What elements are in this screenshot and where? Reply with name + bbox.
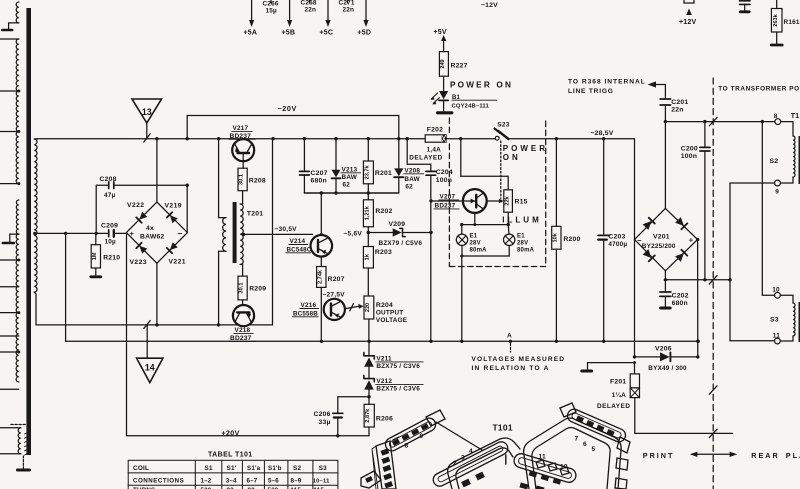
svg-text:V213: V213 xyxy=(342,166,358,173)
resistor R209 xyxy=(238,276,247,300)
svg-text:C202: C202 xyxy=(672,292,689,299)
svg-text:S3: S3 xyxy=(770,317,779,324)
svg-text:R1618: R1618 xyxy=(784,19,800,26)
svg-text:3: 3 xyxy=(461,455,465,462)
svg-text:S23: S23 xyxy=(497,122,509,129)
primary tap leads xyxy=(0,38,19,40)
+12V arrow xyxy=(686,9,692,16)
resistor R208 xyxy=(242,161,244,168)
lamp E1 (left) xyxy=(461,225,463,235)
svg-text:BD237: BD237 xyxy=(230,335,252,342)
svg-text:S1'a: S1'a xyxy=(247,465,261,472)
svg-text:C208: C208 xyxy=(100,176,117,183)
svg-text:30.1: 30.1 xyxy=(239,283,245,294)
svg-text:DELAYED: DELAYED xyxy=(597,403,630,410)
resistor R227 xyxy=(439,52,448,77)
svg-text:+5D: +5D xyxy=(358,30,372,37)
svg-text:C201: C201 xyxy=(671,99,688,106)
wire V207 emitter xyxy=(474,213,476,225)
svg-text:4700µ: 4700µ xyxy=(608,241,627,248)
wire -20V bus xyxy=(187,116,399,139)
svg-text:V209: V209 xyxy=(389,221,406,228)
svg-text:E1: E1 xyxy=(470,233,478,239)
fuse F201 xyxy=(634,363,636,374)
svg-text:+: + xyxy=(689,235,694,244)
wire 28V AC line to pin 8 xyxy=(665,121,775,123)
transformer T201 core xyxy=(233,202,237,263)
lower bus (V218 base net) xyxy=(36,139,273,325)
svg-text:10: 10 xyxy=(772,286,780,293)
svg-text:POWER ON: POWER ON xyxy=(450,81,513,90)
svg-text:680n: 680n xyxy=(311,178,327,185)
T101 left rail top tab xyxy=(426,410,445,426)
node line C207/V213/R201/V208 xyxy=(304,192,398,194)
dashed ILLUM box right edge xyxy=(545,121,547,267)
svg-text:C203: C203 xyxy=(608,234,625,241)
svg-text:13: 13 xyxy=(142,107,152,117)
bridge rectifier 4x BAW62 xyxy=(126,202,187,263)
boundary slash xyxy=(709,276,717,284)
diode V201 b xyxy=(675,217,687,229)
capacitor C202 xyxy=(664,280,666,291)
svg-text:263k: 263k xyxy=(773,13,779,26)
svg-text:V211: V211 xyxy=(376,355,392,362)
T201 secondary winding xyxy=(240,204,243,265)
screen hatch marks xyxy=(25,431,31,434)
screen dashed marker xyxy=(11,424,26,426)
svg-text:28V: 28V xyxy=(517,240,528,246)
lamp return line xyxy=(462,255,509,257)
svg-text:220: 220 xyxy=(365,303,371,312)
T101 right bobbin body xyxy=(506,403,630,489)
triangle 14 xyxy=(146,325,148,358)
svg-text:BD237: BD237 xyxy=(230,133,252,140)
grounded tap top xyxy=(9,23,19,29)
T101 left lower rail xyxy=(431,440,510,489)
svg-text:−12V: −12V xyxy=(481,2,498,9)
wire pin9 to bridge line xyxy=(730,183,775,280)
T101 right rail end tab xyxy=(617,437,630,453)
secondary bottom lead xyxy=(34,292,36,325)
dashed board boundary at F202 xyxy=(448,118,450,267)
svg-text:R207: R207 xyxy=(328,276,345,283)
svg-text:5–6: 5–6 xyxy=(268,477,279,484)
wire fuse node to R15 top xyxy=(461,139,508,190)
svg-text:T1: T1 xyxy=(791,113,800,120)
wire bridge bottom xyxy=(665,271,730,280)
capacitor C204 xyxy=(407,139,431,171)
svg-text:S1': S1' xyxy=(227,465,237,472)
svg-text:BZX75 / C3V6: BZX75 / C3V6 xyxy=(376,363,420,370)
T101 right side tabs xyxy=(616,458,628,470)
svg-text:V208: V208 xyxy=(404,167,420,174)
slash at node 13 xyxy=(144,134,150,142)
secondary centre tap xyxy=(33,232,36,235)
fuse F202 xyxy=(425,135,446,142)
svg-text:BZX75 / C3V6: BZX75 / C3V6 xyxy=(376,386,420,393)
svg-text:22n: 22n xyxy=(343,7,355,14)
svg-text:10–11: 10–11 xyxy=(313,478,330,484)
svg-text:BY225/200: BY225/200 xyxy=(642,243,676,250)
svg-text:3–4: 3–4 xyxy=(226,477,237,484)
svg-text:S1: S1 xyxy=(205,465,213,472)
diode V222 xyxy=(136,212,147,223)
resistor R207 xyxy=(320,257,322,267)
svg-text:1,21k: 1,21k xyxy=(364,205,370,220)
svg-text:−30,5V: −30,5V xyxy=(275,226,298,233)
zener V211 xyxy=(368,341,370,355)
svg-text:11: 11 xyxy=(539,454,547,461)
wire V207 collector to R15 wiper xyxy=(487,200,500,202)
svg-text:R206: R206 xyxy=(376,415,393,422)
svg-text:C266: C266 xyxy=(263,1,279,8)
T101 left foot piece xyxy=(361,471,381,488)
svg-text:DELAYED: DELAYED xyxy=(409,154,442,161)
bus junction dots xyxy=(155,137,158,140)
svg-text:47µ: 47µ xyxy=(104,192,116,199)
capacitor C207 xyxy=(303,139,305,171)
svg-text:11: 11 xyxy=(773,333,780,340)
svg-text:R200: R200 xyxy=(563,236,580,243)
svg-text:+12V: +12V xyxy=(679,19,696,26)
wire bridge plus vertex down xyxy=(697,240,699,357)
potentiometer R204 xyxy=(364,296,374,319)
svg-text:BC558B: BC558B xyxy=(293,310,318,317)
svg-text:V221: V221 xyxy=(169,259,186,266)
svg-text:LINE TRIGG: LINE TRIGG xyxy=(568,88,614,95)
svg-text:V212: V212 xyxy=(376,378,392,385)
svg-text:V217: V217 xyxy=(233,125,249,132)
T201 centre tap xyxy=(242,233,245,236)
tap junction dots xyxy=(17,90,20,93)
svg-text:S2: S2 xyxy=(770,158,779,165)
svg-text:680n: 680n xyxy=(672,300,688,307)
svg-text:22n: 22n xyxy=(671,107,683,114)
resistor R202 xyxy=(367,193,369,200)
transformer core (left mains transformer) xyxy=(26,8,31,455)
diode V213 xyxy=(335,139,337,170)
ground below R210 xyxy=(91,275,101,278)
T1 winding S3 xyxy=(775,292,781,298)
svg-text:22n: 22n xyxy=(305,7,317,14)
svg-text:A: A xyxy=(507,333,512,340)
svg-text:100n: 100n xyxy=(436,177,452,184)
svg-text:+5C: +5C xyxy=(320,30,334,37)
svg-text:8: 8 xyxy=(405,443,409,450)
svg-text:C206: C206 xyxy=(314,411,331,418)
bridge rectifier V201 xyxy=(635,208,698,270)
svg-text:−20V: −20V xyxy=(278,104,297,113)
wire to pin11 and rear xyxy=(730,280,775,341)
svg-text:V207: V207 xyxy=(440,193,456,200)
svg-text:REAR: REAR xyxy=(751,451,779,460)
resistor R210 xyxy=(95,233,97,244)
resistor R201 xyxy=(367,139,369,161)
svg-text:+5B: +5B xyxy=(282,30,296,37)
lamp E1 (right) xyxy=(507,225,510,235)
svg-text:10µ: 10µ xyxy=(105,239,117,246)
+12V connector box xyxy=(684,0,694,3)
preset R15 xyxy=(504,190,513,212)
svg-text:T201: T201 xyxy=(247,211,263,218)
svg-text:V223: V223 xyxy=(130,259,147,266)
svg-text:2,74k: 2,74k xyxy=(317,269,323,284)
svg-text:BZX79 / C5V6: BZX79 / C5V6 xyxy=(379,240,423,247)
ground below B1 xyxy=(438,111,452,114)
resistor R206 xyxy=(368,397,370,405)
wire lamps to A rail xyxy=(461,256,463,341)
svg-text:R209: R209 xyxy=(249,286,266,293)
T101 middle pin rail xyxy=(512,452,577,484)
svg-text:CQY24B–111: CQY24B–111 xyxy=(452,104,490,110)
svg-text:62: 62 xyxy=(343,181,351,188)
svg-text:ON: ON xyxy=(503,153,521,162)
svg-text:R227: R227 xyxy=(451,63,468,70)
wire bus between fuse and switch xyxy=(446,138,495,140)
wire bridge right vertex up xyxy=(186,185,188,232)
diode V221 xyxy=(167,242,178,253)
node A dashed tick xyxy=(510,344,512,352)
svg-text:S2: S2 xyxy=(293,465,301,472)
svg-text:−28,5V: −28,5V xyxy=(591,130,614,137)
wire -30.5V tap to V214 xyxy=(244,233,313,235)
svg-text:22k: 22k xyxy=(504,195,510,205)
capacitor C271 stub xyxy=(347,0,349,3)
svg-text:PRINT: PRINT xyxy=(643,451,675,460)
svg-text:+5V: +5V xyxy=(434,29,447,36)
wire bridge bottom to lower bus xyxy=(156,263,158,325)
decoupling capacitor to ground (top right) xyxy=(744,0,746,2)
svg-text:IN RELATION TO A: IN RELATION TO A xyxy=(472,365,550,372)
capacitor C203 xyxy=(603,139,605,235)
svg-text:CONNECTIONS: CONNECTIONS xyxy=(133,477,184,484)
capacitor C208 xyxy=(96,185,107,233)
transistor V217 xyxy=(232,139,254,161)
T201 primary winding xyxy=(223,218,226,252)
svg-text:+5A: +5A xyxy=(244,30,258,37)
switch linkage dotted xyxy=(500,141,502,199)
slash at node 14 xyxy=(144,321,150,329)
svg-text:S3: S3 xyxy=(319,465,327,472)
ground below C202 xyxy=(661,307,671,310)
transistor V216 xyxy=(324,299,345,320)
svg-text:T101: T101 xyxy=(493,423,513,433)
T101 middle rail pin posts xyxy=(536,460,545,468)
resistor R200 xyxy=(555,139,557,227)
svg-text:8–9: 8–9 xyxy=(291,477,302,484)
svg-text:−: − xyxy=(637,236,642,245)
svg-text:R203: R203 xyxy=(375,249,392,256)
svg-text:100n: 100n xyxy=(681,153,697,160)
svg-text:10k: 10k xyxy=(553,232,559,242)
svg-text:BC548C: BC548C xyxy=(287,246,312,253)
print/rear double arrow xyxy=(694,453,733,455)
main dashed board boundary xyxy=(712,78,714,489)
diode V201 a xyxy=(643,218,655,230)
svg-text:4: 4 xyxy=(469,448,473,455)
svg-text:5: 5 xyxy=(592,446,596,453)
svg-text:COIL: COIL xyxy=(133,465,149,472)
svg-text:VOLTAGES MEASURED: VOLTAGES MEASURED xyxy=(472,356,566,363)
svg-text:1M: 1M xyxy=(92,252,98,260)
secondary winding xyxy=(34,139,37,292)
svg-text:R208: R208 xyxy=(249,178,266,185)
triangle 13 xyxy=(132,99,162,123)
chassis ground branch xyxy=(588,363,635,370)
svg-text:BYX49 / 300: BYX49 / 300 xyxy=(648,365,687,372)
lamp feed line xyxy=(462,224,508,226)
capacitor C200 xyxy=(704,122,706,147)
standalone boundary slash xyxy=(709,386,717,394)
svg-text:POWER: POWER xyxy=(503,144,548,153)
svg-text:R201: R201 xyxy=(375,170,392,177)
svg-text:23,7k: 23,7k xyxy=(364,165,370,180)
svg-text:V219: V219 xyxy=(165,203,182,210)
svg-text:9: 9 xyxy=(775,189,779,196)
transistor V214 xyxy=(320,193,322,235)
transistor V207 xyxy=(431,200,463,202)
T101 right top rail xyxy=(565,407,627,444)
svg-text:C207: C207 xyxy=(311,170,328,177)
capacitor C268 stub xyxy=(309,0,311,3)
svg-text:30.1: 30.1 xyxy=(239,174,245,185)
boundary slash xyxy=(709,117,717,125)
svg-text:1k: 1k xyxy=(364,253,370,260)
svg-text:10: 10 xyxy=(560,464,568,471)
svg-text:28V: 28V xyxy=(470,240,481,246)
zener V212 xyxy=(364,375,374,381)
boundary slash xyxy=(709,429,717,437)
svg-text:6–7: 6–7 xyxy=(247,477,258,484)
svg-text:BAW: BAW xyxy=(404,176,420,183)
-5.6V node line xyxy=(368,232,392,234)
T101 pictorial left bobbin pin ladder column xyxy=(361,410,520,489)
svg-text:V214: V214 xyxy=(290,238,306,245)
R204 wiper arrow from V216 xyxy=(345,306,359,309)
svg-text:7: 7 xyxy=(575,436,579,443)
svg-text:R210: R210 xyxy=(103,254,120,261)
svg-text:R202: R202 xyxy=(375,208,392,215)
svg-text:2: 2 xyxy=(453,460,457,467)
resistor R203 xyxy=(367,233,369,247)
svg-text:6: 6 xyxy=(583,441,587,448)
T101 left bobbin body edge xyxy=(436,422,482,450)
table TABEL T101 xyxy=(128,460,338,489)
svg-text:4x: 4x xyxy=(146,225,154,232)
svg-text:80mA: 80mA xyxy=(517,248,535,254)
svg-text:8: 8 xyxy=(774,113,778,120)
svg-text:OUTPUT: OUTPUT xyxy=(376,309,403,316)
svg-text:−27,5V: −27,5V xyxy=(323,291,346,298)
switch S23 xyxy=(495,136,499,140)
T101 bottom pads xyxy=(519,483,528,489)
svg-text:14: 14 xyxy=(145,363,155,373)
wire pin8/pin10 link xyxy=(762,122,774,296)
wire bus right of switch to bridge xyxy=(509,139,635,240)
svg-text:TABEL T101: TABEL T101 xyxy=(208,452,253,459)
svg-text:F202: F202 xyxy=(427,126,443,133)
capacitor C266 stub xyxy=(270,0,272,3)
LED B1 xyxy=(439,91,448,99)
wire +20V rail xyxy=(127,233,370,435)
wire bridge minus vertex down xyxy=(634,240,636,357)
svg-text:C204: C204 xyxy=(436,169,453,176)
primary winding sections xyxy=(16,2,19,23)
svg-text:C200: C200 xyxy=(681,145,698,152)
node +5V arrow xyxy=(443,41,445,52)
diode V201 c xyxy=(643,249,655,261)
svg-text:−5,6V: −5,6V xyxy=(344,231,363,238)
resistor R1618 xyxy=(776,0,778,9)
screened bottom winding xyxy=(18,428,21,454)
svg-text:PLA: PLA xyxy=(786,451,800,460)
svg-text:VOLTAGE: VOLTAGE xyxy=(376,317,408,324)
svg-text:249: 249 xyxy=(440,59,446,68)
T101 left top rail xyxy=(383,416,438,453)
wire R227 to B1 xyxy=(443,76,445,91)
+5A/+5B/+5C/+5D supply arrows xyxy=(251,0,253,20)
svg-text:B1: B1 xyxy=(452,95,461,101)
svg-text:S1'b: S1'b xyxy=(268,465,282,472)
diode V201 d xyxy=(675,250,687,262)
svg-text:C209: C209 xyxy=(101,223,118,230)
svg-text:F201: F201 xyxy=(610,379,626,386)
svg-text:80mA: 80mA xyxy=(470,248,488,254)
svg-text:+: + xyxy=(130,229,135,238)
T101 left bobbin body xyxy=(448,438,520,489)
wire bridge top to bus xyxy=(156,139,158,202)
capacitor C201 + wire to line trigg arrow xyxy=(664,106,666,209)
diode V208 xyxy=(398,139,400,169)
svg-text:E1: E1 xyxy=(517,233,525,239)
T1 winding S2 xyxy=(775,119,781,125)
svg-text:1¼A: 1¼A xyxy=(612,391,626,399)
capacitor C206 xyxy=(338,397,369,413)
grounded tap middle xyxy=(10,234,19,242)
transistor V218 xyxy=(233,305,254,326)
svg-text:V206: V206 xyxy=(655,345,672,352)
svg-text:BAW62: BAW62 xyxy=(140,234,164,241)
diode V223 xyxy=(136,243,147,254)
svg-text:9: 9 xyxy=(420,433,424,440)
B1 label underline xyxy=(452,99,497,101)
svg-text:BAW: BAW xyxy=(342,174,358,181)
capacitor C209 xyxy=(36,232,108,234)
svg-text:V218: V218 xyxy=(235,327,251,334)
zener V209 xyxy=(393,228,402,236)
svg-text:62: 62 xyxy=(405,183,413,190)
svg-text:TO TRANSFORMER POIN: TO TRANSFORMER POIN xyxy=(718,86,800,93)
svg-text:ILLUM: ILLUM xyxy=(502,216,541,225)
svg-text:BD237: BD237 xyxy=(435,202,456,209)
svg-text:V201: V201 xyxy=(653,233,670,240)
svg-text:2,87k: 2,87k xyxy=(365,408,371,423)
wire A-rail xyxy=(66,233,699,341)
screen ground xyxy=(22,456,24,469)
svg-text:1,4A: 1,4A xyxy=(427,146,441,153)
svg-text:−: − xyxy=(178,228,183,238)
svg-text:+20V: +20V xyxy=(222,430,240,437)
svg-text:15µ: 15µ xyxy=(266,8,278,15)
diode V206 xyxy=(635,356,660,358)
svg-text:V222: V222 xyxy=(127,202,144,209)
svg-text:TO R368 INTERNAL: TO R368 INTERNAL xyxy=(568,78,646,85)
wire main -28.5V bus (left of fuse) xyxy=(38,138,426,140)
svg-text:R204: R204 xyxy=(376,302,393,309)
dashed ILLUM box bottom edge xyxy=(449,266,545,268)
diode V219 xyxy=(167,212,178,223)
svg-text:V216: V216 xyxy=(301,302,317,309)
